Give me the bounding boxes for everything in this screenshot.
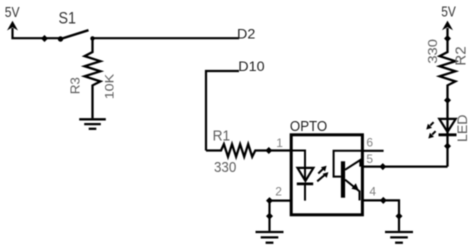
svg-text:10K: 10K <box>102 73 116 99</box>
svg-text:LED: LED <box>455 114 470 142</box>
svg-text:D2: D2 <box>237 25 256 41</box>
svg-text:4: 4 <box>369 184 376 198</box>
svg-text:5V: 5V <box>441 4 456 21</box>
svg-text:330: 330 <box>425 39 440 64</box>
svg-text:5V: 5V <box>5 4 20 21</box>
svg-text:1: 1 <box>276 136 283 150</box>
svg-text:D10: D10 <box>238 58 265 74</box>
svg-text:5: 5 <box>366 152 373 166</box>
svg-text:330: 330 <box>214 159 236 176</box>
svg-text:R1: R1 <box>213 128 231 145</box>
svg-text:OPTO: OPTO <box>290 118 327 135</box>
svg-text:S1: S1 <box>59 9 77 27</box>
svg-text:R2: R2 <box>454 46 470 66</box>
svg-text:R3: R3 <box>67 77 82 94</box>
svg-text:2: 2 <box>275 184 282 198</box>
svg-text:6: 6 <box>366 135 373 149</box>
